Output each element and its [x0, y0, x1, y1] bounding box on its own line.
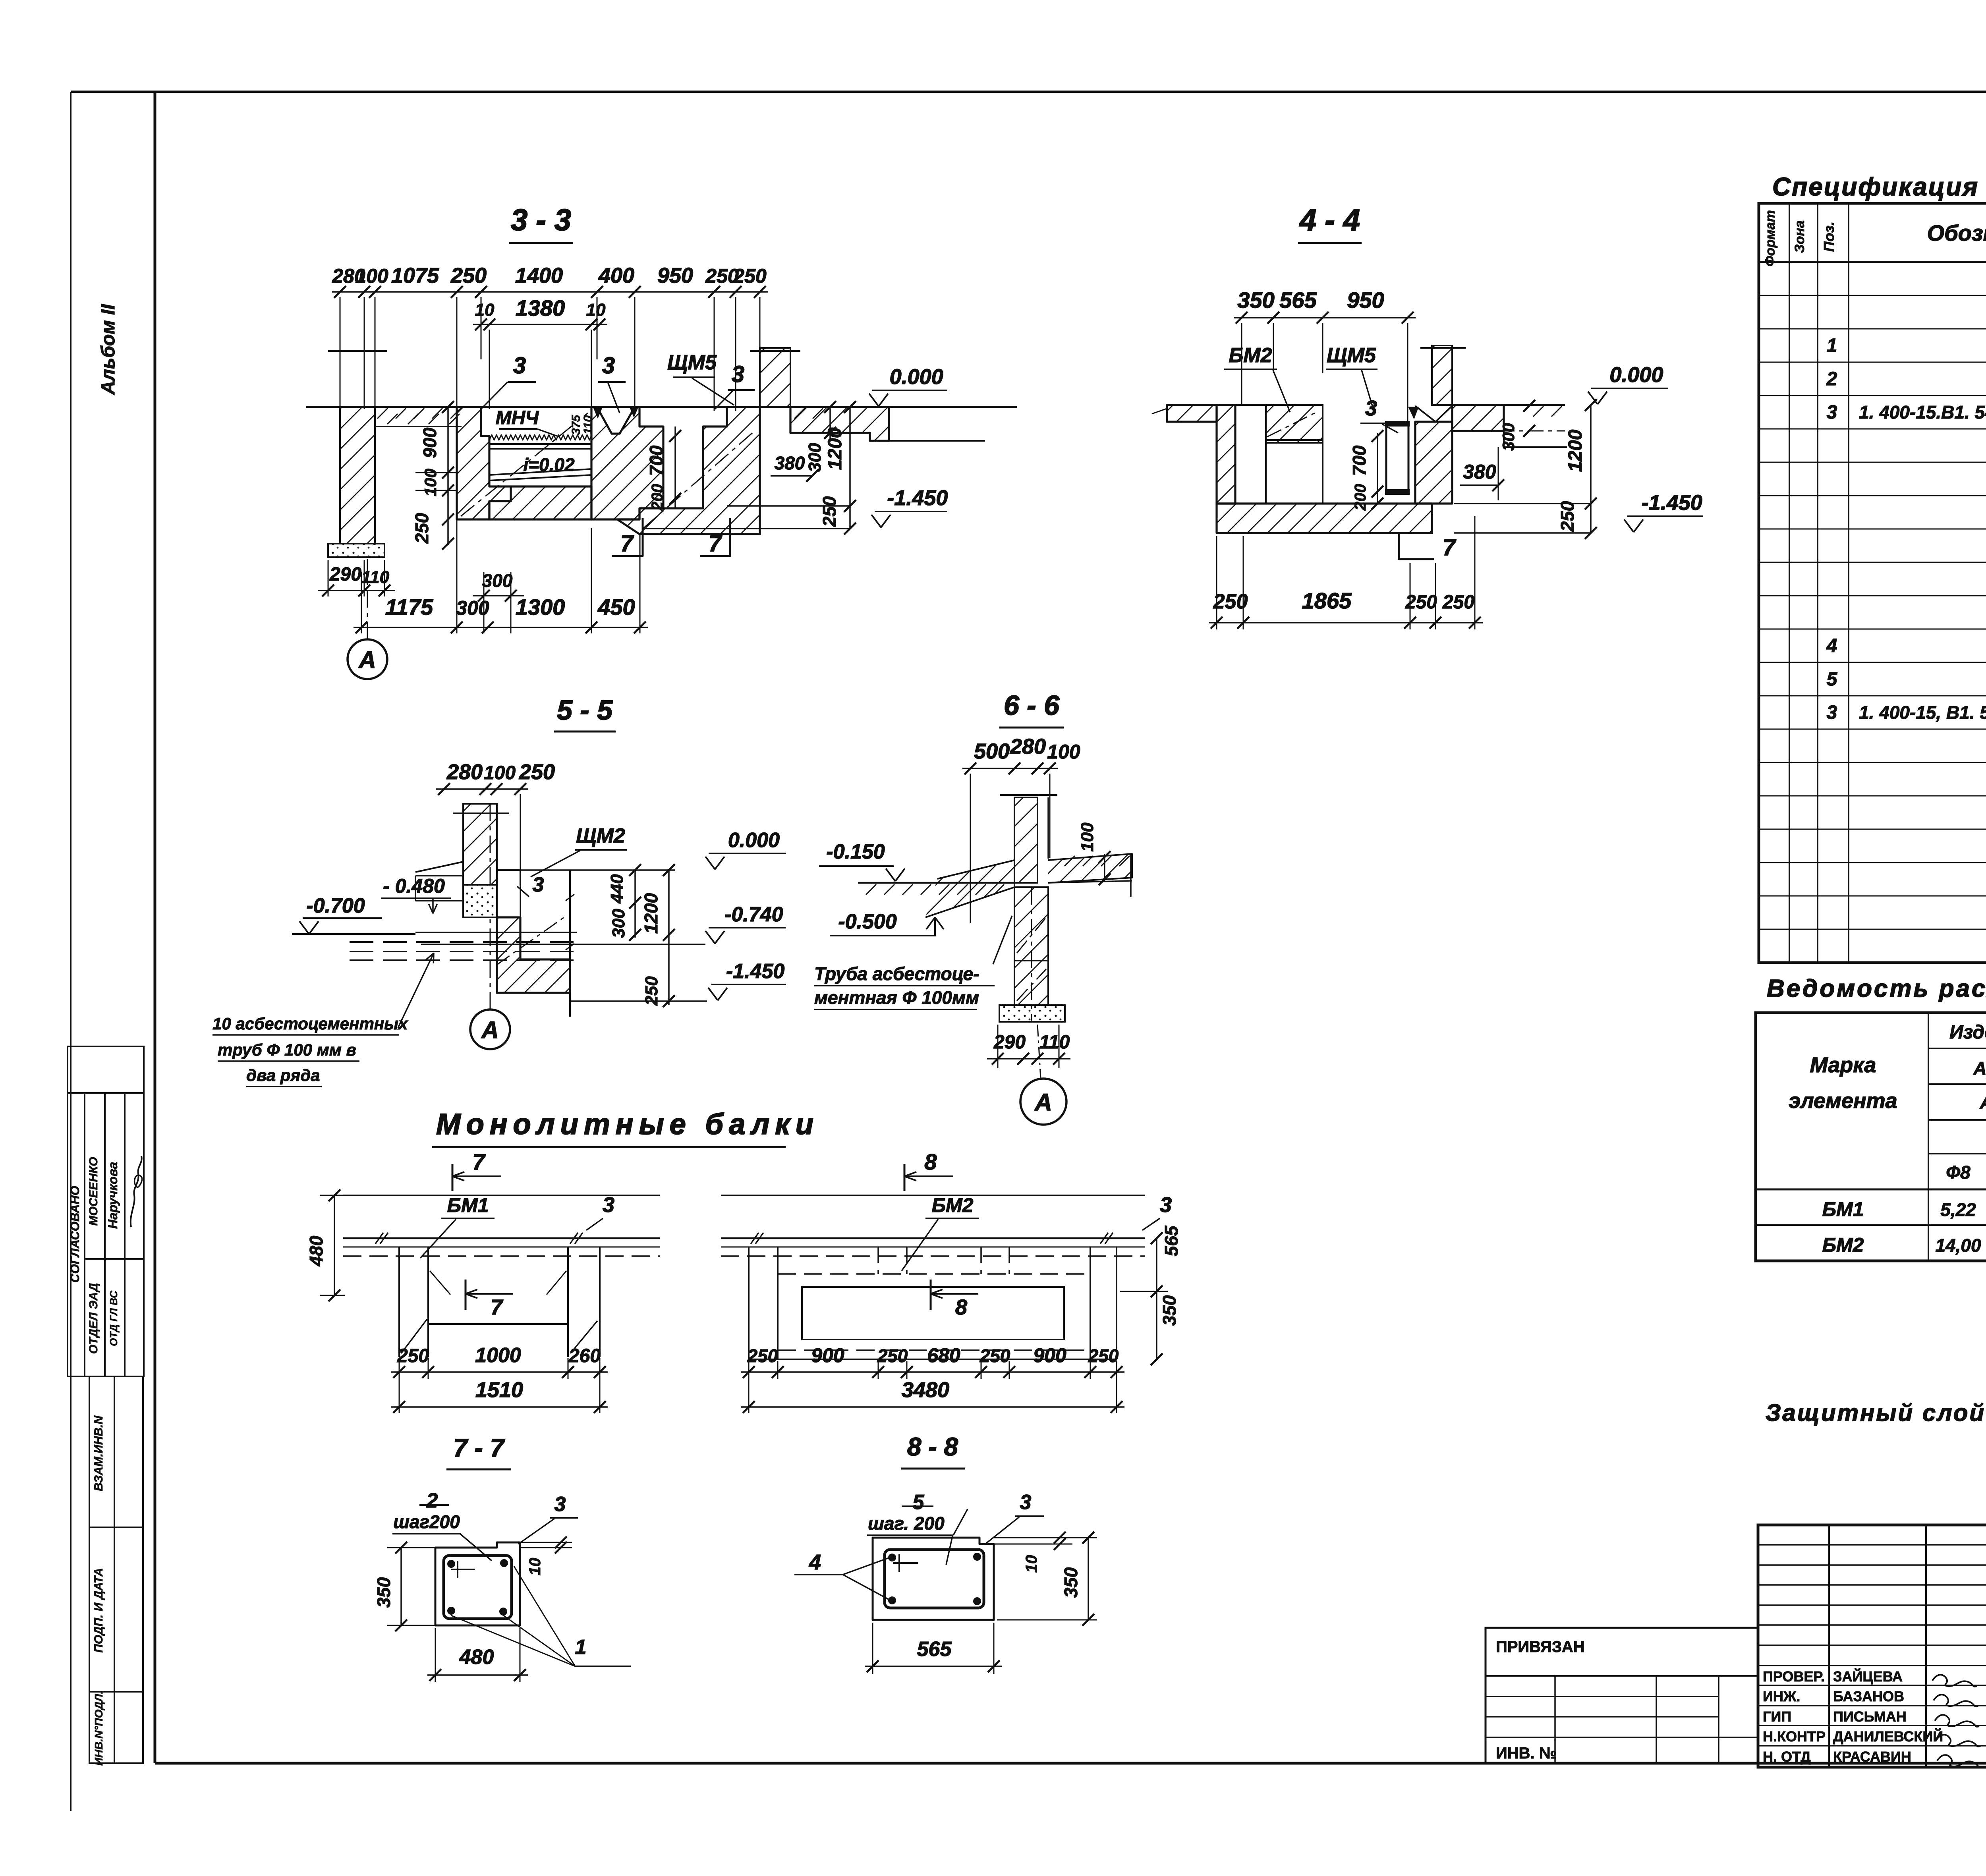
3-3 level -1.450 — [871, 515, 881, 527]
3-3 concrete right of channel with funnel cut — [591, 407, 663, 519]
4-4 funnel wedge right — [1415, 406, 1452, 422]
svg-text:400: 400 — [598, 264, 634, 288]
svg-text:3: 3 — [732, 361, 744, 387]
beam BM2 bottom dims — [741, 1371, 1124, 1373]
beam BM2 stub walls dashed — [877, 1247, 879, 1274]
svg-text:Защитный слой бетона в бал: Защитный слой бетона в балках - 20 мм. — [1766, 1399, 1986, 1426]
svg-text:3: 3 — [533, 873, 544, 896]
svg-text:7 - 7: 7 - 7 — [453, 1434, 505, 1462]
svg-text:100: 100 — [1047, 741, 1080, 763]
5-5 level -1.450 — [708, 988, 718, 1000]
svg-text:БАЗАНОВ: БАЗАНОВ — [1833, 1688, 1904, 1704]
svg-text:ПРОВЕР.: ПРОВЕР. — [1763, 1668, 1825, 1685]
beam BM2 body — [748, 1247, 750, 1359]
svg-text:ПИСЬМАН: ПИСЬМАН — [1833, 1708, 1907, 1725]
4-4 right vertical dims 1200 250 — [1590, 405, 1592, 533]
svg-text:-1.450: -1.450 — [887, 486, 948, 510]
svg-text:1000: 1000 — [475, 1344, 521, 1367]
beam BM2 top slab lines — [721, 1195, 1145, 1196]
spec table grid — [1759, 203, 1986, 963]
4-4 ground line left — [1167, 404, 1217, 406]
sheet outer border — [70, 92, 71, 1811]
svg-text:950: 950 — [657, 264, 693, 288]
3-3 central concrete mass left pier — [457, 407, 511, 519]
6-6 left slab wedge — [925, 860, 1014, 917]
4-4 channel 7 embedded — [1386, 423, 1408, 492]
5-5 column hatched — [463, 804, 497, 885]
3-3 left wall axis break — [328, 350, 387, 352]
svg-text:элемента: элемента — [1789, 1089, 1897, 1113]
beam BM2 cut mark 8 bottom — [930, 1280, 932, 1310]
beam BM1 cut mark 7 bottom — [465, 1280, 467, 1310]
svg-text:480: 480 — [459, 1646, 494, 1669]
svg-text:350: 350 — [1061, 1567, 1081, 1598]
3-3 sub dimension 10-1380-10 — [473, 324, 607, 325]
svg-text:10: 10 — [586, 300, 606, 320]
6-6 column above ground hatched — [1014, 797, 1037, 883]
svg-text:250: 250 — [979, 1345, 1010, 1366]
svg-text:-1.450: -1.450 — [726, 960, 785, 983]
svg-text:900: 900 — [419, 427, 440, 458]
svg-text:440: 440 — [607, 874, 627, 904]
8-8 dim 350 — [1088, 1538, 1089, 1620]
svg-text:250: 250 — [747, 1345, 778, 1366]
sidebar PODP I DATA box — [89, 1527, 143, 1692]
6-6 footing — [999, 1005, 1065, 1022]
svg-text:ЩМ2: ЩМ2 — [576, 824, 625, 847]
svg-text:350: 350 — [1237, 288, 1274, 313]
svg-text:1. 400-15.В1. 540-09: 1. 400-15.В1. 540-09 — [1859, 402, 1986, 423]
svg-text:шаг. 200: шаг. 200 — [868, 1513, 945, 1534]
8-8 rebar dots — [888, 1554, 896, 1561]
beam BM1 cut mark 7 top — [452, 1164, 454, 1191]
svg-text:3: 3 — [602, 353, 615, 378]
svg-text:8: 8 — [924, 1149, 937, 1174]
svg-text:1075: 1075 — [391, 264, 439, 288]
sidebar signatures — [131, 1156, 142, 1227]
svg-text:2: 2 — [1826, 369, 1837, 390]
svg-text:ЗАЙЦЕВА: ЗАЙЦЕВА — [1833, 1668, 1903, 1685]
svg-text:480: 480 — [306, 1235, 326, 1266]
3-3 left wall below ground hatched — [340, 407, 375, 544]
svg-text:1400: 1400 — [515, 264, 563, 288]
svg-text:7: 7 — [709, 531, 723, 556]
svg-text:10 асбестоцементных: 10 асбестоцементных — [213, 1014, 408, 1033]
beam BM1 left dim 480 — [334, 1195, 335, 1295]
svg-text:250: 250 — [397, 1345, 429, 1366]
4-4 ground line right — [1432, 404, 1565, 406]
sidebar approval box — [68, 1046, 144, 1376]
svg-text:350: 350 — [1159, 1295, 1180, 1326]
title block outer — [1758, 1525, 1986, 1767]
4-4 pit outer walls hatched — [1217, 405, 1235, 504]
beam BM1 body — [398, 1247, 400, 1357]
svg-text:1. 400-15, В1. 540-09: 1. 400-15, В1. 540-09 — [1859, 702, 1986, 723]
svg-text:1200: 1200 — [1565, 429, 1586, 472]
svg-text:2: 2 — [426, 1489, 438, 1512]
svg-text:250: 250 — [733, 265, 767, 287]
4-4 cut mark 7 — [1399, 533, 1434, 559]
svg-text:5 - 5: 5 - 5 — [557, 695, 613, 726]
3-3 bottom small dim 300 — [483, 572, 485, 633]
svg-text:два ряда: два ряда — [246, 1066, 320, 1085]
svg-text:Зона: Зона — [1792, 220, 1807, 253]
svg-text:Изделия арматурные: Изделия арматурные — [1949, 1022, 1986, 1043]
8-8 dim 565 — [872, 1623, 873, 1674]
svg-text:7: 7 — [491, 1295, 504, 1319]
3-3 right floor slab — [790, 407, 889, 441]
svg-text:3: 3 — [1827, 702, 1837, 723]
svg-text:i=0.02: i=0.02 — [523, 454, 575, 475]
svg-text:А-I: А-I — [1979, 1092, 1986, 1113]
svg-text:ИНЖ.: ИНЖ. — [1763, 1688, 1800, 1704]
svg-text:290: 290 — [329, 564, 361, 585]
svg-text:3: 3 — [1365, 396, 1377, 420]
5-5 floor slab left — [415, 862, 463, 872]
7-7 dim 480 — [435, 1628, 436, 1682]
5-5 top dimension chain — [436, 788, 528, 790]
svg-text:БМ1: БМ1 — [1822, 1198, 1864, 1220]
svg-text:700: 700 — [1349, 445, 1370, 476]
7-7 hook mark — [451, 1569, 475, 1570]
svg-text:Ф8: Ф8 — [1946, 1162, 1971, 1183]
svg-text:Труба асбестоце-: Труба асбестоце- — [814, 963, 979, 984]
6-6 column below ground hatched — [1014, 887, 1048, 1005]
sidebar INV N PODL box — [89, 1692, 143, 1763]
svg-text:8: 8 — [955, 1295, 967, 1319]
8-8 stirrup — [885, 1550, 984, 1608]
svg-text:труб Ф 100 мм в: труб Ф 100 мм в — [218, 1040, 356, 1059]
svg-text:БМ2: БМ2 — [1822, 1234, 1864, 1256]
svg-text:-0.740: -0.740 — [724, 903, 783, 926]
5-5 rebate step — [497, 870, 520, 886]
beam BM2 cut mark 8 top — [904, 1164, 906, 1191]
svg-text:7: 7 — [472, 1149, 486, 1174]
svg-text:200: 200 — [649, 484, 666, 511]
svg-text:БМ2: БМ2 — [1229, 344, 1272, 367]
svg-text:5: 5 — [1827, 669, 1838, 690]
svg-text:Н. ОТД: Н. ОТД — [1763, 1749, 1811, 1765]
svg-text:5: 5 — [913, 1491, 925, 1514]
svg-text:ментная Ф 100мм: ментная Ф 100мм — [814, 987, 979, 1008]
3-3 right wall above ground hatched — [760, 348, 790, 407]
svg-text:250: 250 — [819, 496, 840, 527]
svg-text:380: 380 — [1463, 461, 1496, 483]
svg-text:ДАНИЛЕВСКИЙ: ДАНИЛЕВСКИЙ — [1833, 1728, 1943, 1745]
svg-text:3: 3 — [554, 1493, 566, 1516]
svg-text:200: 200 — [1352, 484, 1369, 511]
svg-text:1380: 1380 — [516, 295, 565, 320]
8-8 hook mark — [893, 1562, 918, 1564]
svg-text:ЩМ5: ЩМ5 — [1327, 344, 1376, 367]
4-4 inner lines — [1322, 405, 1323, 504]
4-4 dims 700 200 rotated — [1377, 433, 1378, 504]
3-3 axis circle A — [348, 639, 387, 679]
svg-text:300: 300 — [609, 909, 628, 938]
svg-text:3: 3 — [1160, 1193, 1172, 1217]
svg-text:-0.500: -0.500 — [838, 910, 897, 933]
3-3 soil line between wall and pit — [375, 426, 462, 427]
3-3 left vertical dims 900 100 250 — [447, 407, 449, 545]
svg-text:100: 100 — [1078, 822, 1097, 852]
svg-text:380: 380 — [775, 453, 805, 473]
5-5 right boundary line — [569, 870, 571, 1017]
beam BM1 top slab lines — [343, 1195, 660, 1196]
3-3 concrete under channel — [489, 486, 591, 519]
svg-text:110: 110 — [582, 415, 595, 434]
title block signatures — [1932, 1675, 1977, 1687]
3-3 dim 300 rotated right — [829, 407, 831, 441]
4-4 bottom dimension chain — [1209, 622, 1483, 623]
6-6 top dimension chain — [962, 768, 1058, 769]
3-3 top dimension chain — [332, 291, 768, 293]
svg-text:0.000: 0.000 — [728, 829, 780, 852]
svg-text:Монолитные балки: Монолитные балки — [436, 1108, 819, 1141]
svg-text:900: 900 — [811, 1344, 844, 1366]
svg-text:Ведомость расхода стали на: Ведомость расхода стали на элемент, кг — [1767, 975, 1986, 1002]
svg-text:СОГЛАСОВАНО: СОГЛАСОВАНО — [68, 1186, 82, 1283]
5-5 level line 0.000 — [520, 869, 675, 871]
privyazan box — [1486, 1628, 1758, 1763]
svg-text:300: 300 — [1499, 423, 1518, 451]
7-7 dim 350 — [400, 1548, 402, 1625]
5-5 pipes dashed — [350, 941, 577, 943]
4-4 above ground wall hatched — [1432, 345, 1452, 405]
svg-text:1: 1 — [1827, 335, 1837, 356]
4-4 level -1.450 — [1624, 519, 1634, 532]
svg-text:Спецификация элементов моноли: Спецификация элементов монолитных балок — [1772, 172, 1986, 201]
5-5 axis circle A — [470, 1009, 510, 1049]
3-3 right vertical dim 1200 250 — [849, 407, 851, 529]
svg-text:ГИП: ГИП — [1763, 1708, 1791, 1725]
svg-text:250: 250 — [1213, 590, 1248, 613]
4-4 level 0.000 — [1588, 392, 1598, 404]
svg-text:А: А — [481, 1017, 498, 1043]
svg-text:ПОДП. И ДАТА: ПОДП. И ДАТА — [92, 1568, 105, 1653]
beam BM2 trough dashed inner — [778, 1273, 1090, 1275]
sidebar VZAM INV box — [89, 1376, 143, 1527]
svg-text:ИНВ.N°ПОДЛ.: ИНВ.N°ПОДЛ. — [93, 1691, 105, 1766]
svg-text:700: 700 — [646, 445, 667, 476]
svg-text:110: 110 — [361, 567, 390, 587]
svg-text:100: 100 — [355, 265, 388, 287]
6-6 right slab hatched — [1048, 854, 1132, 883]
svg-text:950: 950 — [1347, 288, 1384, 313]
svg-text:10: 10 — [1023, 1555, 1040, 1573]
svg-text:280: 280 — [446, 760, 483, 784]
svg-text:Арматура класса: Арматура класса — [1973, 1058, 1986, 1079]
svg-text:250: 250 — [877, 1345, 908, 1366]
svg-text:ОТДЕЛ ЭАД: ОТДЕЛ ЭАД — [87, 1283, 100, 1354]
3-3 extension lines — [340, 297, 341, 409]
svg-text:-0.150: -0.150 — [826, 840, 885, 863]
5-5 vertical dims 440 300 — [634, 870, 636, 938]
3-3 right pit wall pier — [617, 407, 760, 534]
svg-text:14,00: 14,00 — [1935, 1235, 1981, 1256]
3-3 ground zero line — [306, 406, 1017, 408]
svg-text:3: 3 — [603, 1193, 614, 1217]
svg-text:1175: 1175 — [385, 594, 433, 620]
7-7 dim 10 — [520, 1542, 572, 1543]
7-7 rebar dots — [447, 1560, 455, 1568]
svg-text:-0.700: -0.700 — [306, 894, 365, 917]
svg-text:4: 4 — [809, 1550, 821, 1574]
8-8 dim 10 — [994, 1537, 1072, 1538]
svg-text:450: 450 — [597, 594, 635, 620]
3-3 level 0.000 — [869, 394, 879, 406]
svg-text:300: 300 — [805, 443, 825, 472]
svg-text:375: 375 — [570, 415, 583, 435]
svg-text:300: 300 — [482, 570, 513, 591]
svg-text:3 - 3: 3 - 3 — [511, 203, 571, 237]
svg-text:250: 250 — [1088, 1345, 1119, 1366]
svg-text:ЩМ5: ЩМ5 — [667, 351, 717, 374]
svg-text:280: 280 — [1010, 735, 1046, 759]
svg-text:250: 250 — [1557, 501, 1578, 532]
svg-text:Наручкова: Наручкова — [106, 1162, 120, 1229]
svg-text:10: 10 — [475, 300, 495, 320]
svg-text:- 0.480: - 0.480 — [383, 875, 445, 897]
5-5 level 0.000 flag — [705, 857, 715, 869]
svg-text:ИНВ. №: ИНВ. № — [1496, 1745, 1557, 1762]
svg-text:ПРИВЯЗАН: ПРИВЯЗАН — [1496, 1638, 1585, 1656]
title block small table — [1828, 1525, 1830, 1767]
svg-text:А: А — [1034, 1089, 1052, 1116]
beam BM1 bottom dims — [391, 1371, 608, 1373]
svg-text:3480: 3480 — [902, 1378, 949, 1402]
svg-text:ВЗАМ.ИНВ.N: ВЗАМ.ИНВ.N — [92, 1415, 105, 1491]
8-8 outer rect with notch — [873, 1538, 994, 1620]
4-4 BM2 beam cross hatched — [1266, 405, 1323, 443]
3-3 bottom dimension chain — [354, 627, 648, 628]
svg-text:500: 500 — [974, 739, 1010, 763]
svg-text:565: 565 — [1161, 1225, 1182, 1256]
svg-text:Поз.: Поз. — [1821, 222, 1837, 252]
3-3 dash-dot diagonals in mass — [461, 413, 588, 516]
svg-text:250: 250 — [450, 264, 487, 288]
svg-text:290: 290 — [993, 1032, 1026, 1053]
svg-text:7: 7 — [620, 531, 634, 556]
svg-text:Н.КОНТР: Н.КОНТР — [1763, 1728, 1826, 1745]
svg-text:10: 10 — [526, 1558, 544, 1576]
svg-text:1200: 1200 — [641, 893, 661, 934]
svg-text:МОСЕЕНКО: МОСЕЕНКО — [87, 1157, 100, 1226]
3-3 channel slab lines — [489, 443, 591, 445]
3-3 pit lips — [639, 426, 663, 427]
3-3 pit interior dims 700 200 — [674, 427, 676, 508]
svg-text:3: 3 — [1020, 1491, 1032, 1514]
svg-text:-1.450: -1.450 — [1642, 491, 1702, 515]
svg-text:6 - 6: 6 - 6 — [1004, 690, 1060, 721]
svg-text:5,22: 5,22 — [1940, 1199, 1976, 1220]
3-3 channel teeth line — [489, 435, 592, 440]
svg-text:1: 1 — [575, 1636, 587, 1659]
svg-text:4 - 4: 4 - 4 — [1299, 203, 1360, 237]
svg-text:250: 250 — [411, 513, 432, 544]
svg-text:БМ1: БМ1 — [447, 1194, 489, 1216]
svg-text:565: 565 — [1279, 288, 1317, 313]
svg-text:ОТД ГЛ ВС: ОТД ГЛ ВС — [108, 1290, 120, 1346]
3-3 filled corner marks at funnel — [593, 408, 602, 419]
5-5 level -0.740 — [705, 931, 715, 944]
5-5 stipple element 3 — [463, 885, 497, 917]
svg-text:4: 4 — [1826, 635, 1837, 656]
5-5 vertical dims 1200 250 — [668, 870, 670, 1005]
svg-text:350: 350 — [373, 1577, 394, 1608]
7-7 outer square with notch — [435, 1542, 520, 1625]
beam BM2 break marks — [751, 1233, 759, 1244]
beam BM2 right dims 565 350 — [1156, 1238, 1157, 1359]
svg-text:1300: 1300 — [516, 594, 565, 620]
svg-text:110: 110 — [1039, 1032, 1070, 1053]
beam BM1 break marks — [375, 1233, 383, 1244]
svg-text:БМ2: БМ2 — [932, 1194, 974, 1216]
3-3 footing dim 290 110 — [328, 560, 329, 596]
svg-text:КРАСАВИН: КРАСАВИН — [1833, 1749, 1911, 1765]
svg-text:250: 250 — [519, 760, 555, 784]
svg-text:1510: 1510 — [475, 1378, 523, 1402]
3-3 cut mark 7 right — [700, 518, 730, 556]
4-4 inner white column — [1235, 405, 1266, 504]
svg-text:8 - 8: 8 - 8 — [907, 1432, 958, 1461]
svg-text:100: 100 — [484, 762, 516, 784]
svg-text:Марка: Марка — [1810, 1053, 1876, 1077]
svg-text:260: 260 — [568, 1345, 601, 1366]
svg-text:Формат: Формат — [1763, 210, 1778, 266]
3-3 left wall footing — [328, 544, 384, 557]
svg-text:0.000: 0.000 — [1609, 363, 1663, 387]
6-6 axis circle A — [1020, 1079, 1066, 1125]
svg-text:250: 250 — [1442, 592, 1474, 613]
svg-text:МНЧ: МНЧ — [496, 407, 539, 428]
main frame — [154, 92, 156, 1763]
beam BM2 trough solid rect — [802, 1287, 1064, 1339]
4-4 top dimension chain — [1234, 317, 1416, 318]
6-6 ground line left — [858, 882, 1014, 884]
svg-text:1865: 1865 — [1302, 588, 1352, 613]
svg-text:1200: 1200 — [825, 427, 846, 470]
5-5 pit wall hatched — [497, 917, 570, 993]
svg-text:680: 680 — [927, 1344, 960, 1366]
svg-text:565: 565 — [917, 1638, 952, 1661]
svg-text:3: 3 — [513, 353, 526, 378]
svg-text:0.000: 0.000 — [890, 365, 943, 389]
svg-text:900: 900 — [1033, 1344, 1066, 1366]
svg-text:Обозначение: Обозначение — [1927, 220, 1986, 245]
6-6 footing dims 290 110 — [997, 1025, 999, 1068]
svg-text:А: А — [358, 647, 376, 673]
7-7 stirrup — [444, 1556, 512, 1619]
svg-text:300: 300 — [456, 597, 489, 619]
svg-text:3: 3 — [1827, 402, 1837, 423]
svg-text:Альбом II: Альбом II — [98, 304, 119, 395]
svg-text:7: 7 — [1443, 535, 1457, 560]
steel table grid — [1756, 1013, 1986, 1261]
beam BM1 bent bar diagonals — [401, 1319, 427, 1353]
3-3 cut mark 7 left — [612, 518, 643, 556]
svg-text:шаг200: шаг200 — [393, 1511, 460, 1532]
